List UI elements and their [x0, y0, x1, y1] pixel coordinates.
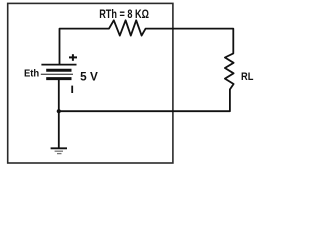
svg-text:RL: RL	[241, 71, 254, 83]
svg-text:RTh = 8 KΩ: RTh = 8 KΩ	[99, 9, 149, 21]
svg-text:Eth: Eth	[24, 68, 39, 80]
svg-text:5 V: 5 V	[80, 72, 98, 84]
